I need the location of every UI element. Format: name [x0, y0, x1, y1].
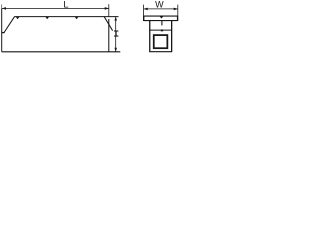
flange left cap: [143, 16, 145, 21]
countersink mark 3: [75, 17, 78, 19]
H bottom arrowhead: [114, 48, 117, 52]
body bottom edge: [149, 51, 172, 53]
flange right cap: [177, 16, 179, 21]
H dimension line: [115, 17, 117, 52]
W right extension line: [177, 5, 179, 16]
left extension line / part left edge: [1, 4, 3, 8]
dimension label H rotated: bottom bar: [114, 35, 118, 37]
flange bottom line: [144, 20, 178, 22]
left chamfer diagonal: [4, 17, 14, 33]
side view: L dimension line: [2, 7, 109, 9]
part bottom edge plus H bottom extension: [2, 51, 121, 53]
chamfer foot tick: [2, 32, 5, 34]
right end diagonal cut: [104, 16, 113, 30]
hole bottom bump: [161, 29, 163, 31]
part right edge: [108, 19, 110, 52]
end view: W dimension line: [144, 8, 178, 10]
countersink mark 2: [46, 17, 49, 19]
flange top line: [144, 15, 178, 17]
L left arrowhead: [2, 7, 6, 10]
body mid line: [150, 29, 172, 31]
W left arrowhead: [144, 8, 148, 11]
H top arrowhead: [114, 17, 117, 21]
W right arrowhead: [174, 8, 178, 11]
dimension label H rotated: crossbar: [115, 31, 117, 36]
inner square hole: [154, 35, 168, 48]
part top edge plus H top extension: [14, 16, 118, 18]
dimension label H rotated: top bar: [114, 30, 118, 32]
screw hole line: [161, 21, 163, 26]
flange countersink mark: [160, 17, 164, 19]
body left edge: [149, 21, 151, 52]
svg-text:L: L: [63, 0, 68, 9]
svg-text:W: W: [155, 0, 164, 9]
countersink mark 1: [16, 17, 19, 19]
L right arrowhead: [105, 7, 109, 10]
body right edge: [171, 21, 173, 52]
right extension line for L: [108, 4, 110, 16]
W left extension line: [143, 5, 145, 16]
